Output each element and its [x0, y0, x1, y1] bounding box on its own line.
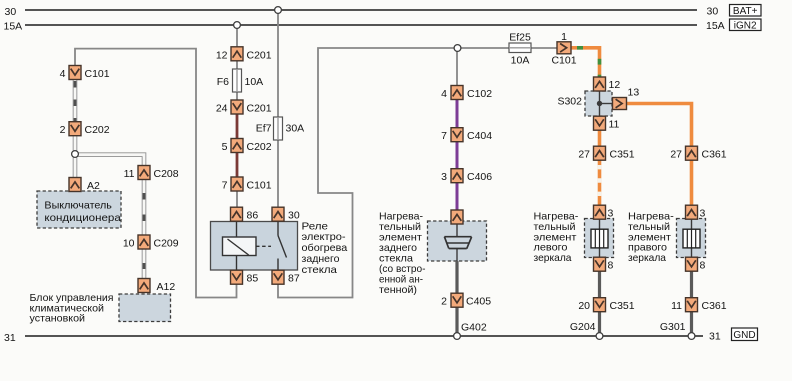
svg-text:12: 12 [216, 49, 228, 61]
svg-text:24: 24 [216, 103, 228, 115]
svg-text:G204: G204 [570, 321, 596, 333]
svg-text:A2: A2 [87, 180, 100, 192]
svg-text:C351: C351 [610, 149, 635, 161]
svg-text:C209: C209 [154, 238, 179, 250]
svg-text:30: 30 [288, 210, 300, 222]
svg-text:C201: C201 [247, 49, 272, 61]
svg-text:C202: C202 [247, 141, 272, 153]
svg-text:10: 10 [123, 238, 135, 250]
svg-text:31: 31 [709, 330, 721, 342]
svg-text:30A: 30A [286, 123, 305, 135]
svg-text:3: 3 [441, 171, 447, 183]
svg-text:4: 4 [441, 88, 447, 100]
svg-text:5: 5 [222, 141, 228, 153]
svg-text:3: 3 [700, 208, 706, 220]
svg-text:7: 7 [441, 130, 447, 142]
svg-text:G402: G402 [461, 322, 487, 334]
svg-text:20: 20 [578, 300, 590, 312]
svg-text:зеркала: зеркала [534, 252, 572, 264]
svg-text:F6: F6 [217, 76, 229, 88]
svg-text:15A: 15A [706, 20, 725, 32]
svg-text:27: 27 [670, 149, 682, 161]
svg-text:G301: G301 [660, 321, 686, 333]
svg-text:стекла: стекла [302, 264, 338, 276]
svg-text:3: 3 [608, 208, 614, 220]
svg-text:7: 7 [222, 180, 228, 192]
svg-text:30: 30 [707, 6, 719, 18]
svg-text:Выключатель: Выключатель [44, 200, 112, 212]
svg-text:iGN2: iGN2 [734, 20, 757, 31]
svg-text:85: 85 [247, 273, 259, 285]
svg-text:11: 11 [671, 300, 682, 312]
svg-text:2: 2 [441, 296, 447, 308]
svg-text:15A: 15A [4, 20, 23, 32]
svg-text:30: 30 [5, 6, 17, 18]
svg-text:C406: C406 [467, 171, 492, 183]
svg-text:кондиционера: кондиционера [44, 212, 121, 224]
svg-text:10A: 10A [245, 76, 264, 88]
svg-text:Ef25: Ef25 [509, 32, 531, 44]
svg-text:зеркала: зеркала [628, 252, 666, 264]
svg-text:S302: S302 [557, 95, 582, 107]
svg-text:C361: C361 [702, 149, 727, 161]
svg-text:1: 1 [561, 31, 567, 43]
svg-text:8: 8 [700, 260, 706, 272]
svg-text:C351: C351 [610, 300, 635, 312]
svg-text:C361: C361 [702, 300, 727, 312]
svg-text:11: 11 [124, 168, 135, 180]
svg-text:87: 87 [288, 273, 300, 285]
svg-text:27: 27 [578, 149, 590, 161]
svg-text:GND: GND [733, 330, 755, 341]
svg-text:C101: C101 [85, 68, 110, 80]
svg-text:C404: C404 [467, 130, 492, 142]
svg-text:12: 12 [609, 79, 621, 91]
svg-text:C101: C101 [551, 54, 576, 66]
svg-text:C201: C201 [247, 103, 272, 115]
svg-text:4: 4 [60, 68, 66, 80]
svg-text:C102: C102 [467, 88, 492, 100]
svg-text:31: 31 [4, 332, 16, 344]
svg-text:C405: C405 [466, 296, 491, 308]
svg-text:10A: 10A [511, 54, 530, 66]
svg-text:BAT+: BAT+ [733, 6, 758, 17]
svg-text:2: 2 [60, 124, 66, 136]
svg-text:A12: A12 [157, 281, 176, 293]
svg-text:C101: C101 [247, 180, 272, 192]
svg-text:8: 8 [608, 260, 614, 272]
svg-text:Ef7: Ef7 [256, 123, 272, 135]
svg-text:86: 86 [247, 210, 259, 222]
svg-text:C208: C208 [154, 168, 179, 180]
svg-text:C202: C202 [85, 124, 110, 136]
svg-text:тенной): тенной) [379, 284, 417, 296]
svg-text:13: 13 [628, 87, 640, 99]
svg-text:11: 11 [609, 119, 620, 131]
svg-text:установкой: установкой [30, 313, 86, 325]
